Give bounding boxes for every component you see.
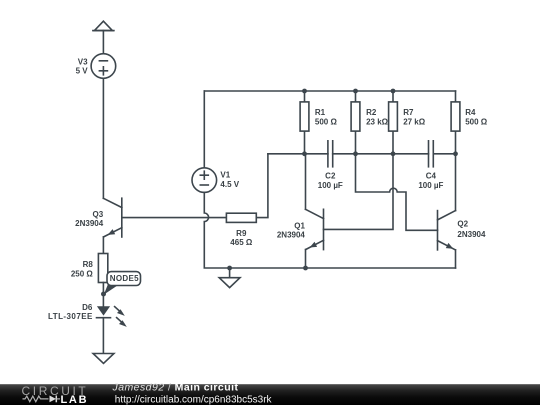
resistor R8 250 — [71, 254, 108, 283]
wire Q1 base to R7 column — [324, 154, 394, 230]
svg-text:Q1: Q1 — [294, 221, 305, 230]
wire top rail — [204, 90, 455, 92]
ground under bottom rail — [219, 268, 240, 288]
voltage source V3 — [76, 54, 116, 79]
junction ground stub dot — [227, 266, 232, 271]
svg-text:500 Ω: 500 Ω — [465, 117, 488, 126]
svg-text:R4: R4 — [465, 108, 476, 117]
svg-text:Jamesd92 / Main circuit: Jamesd92 / Main circuit — [112, 382, 239, 394]
wire Q2 collector to row2 — [455, 154, 457, 211]
node NODE5 flag — [104, 272, 141, 295]
power flag VCC arrow — [93, 21, 114, 30]
junction R7 top rail — [391, 89, 396, 94]
junction R2 top rail — [353, 89, 358, 94]
wire Q3 emitter to R8 — [102, 237, 104, 254]
wire Q1 collector to row2 — [305, 154, 307, 210]
wire D6 to ground — [102, 318, 104, 354]
junction Q1 emitter dot — [303, 266, 308, 271]
transistor Q2 2N3904 — [438, 211, 486, 250]
resistor R7 27k — [389, 91, 426, 154]
ground under D6 — [93, 354, 114, 364]
wire row2 middle segment — [333, 153, 429, 155]
wire Q1 emitter to bottom rail — [305, 250, 307, 269]
capacitor C4 100uF — [418, 141, 443, 190]
capacitor C2 100uF — [318, 141, 343, 190]
svg-text:Q2: Q2 — [457, 220, 468, 229]
transistor Q3 2N3904 — [75, 198, 122, 237]
svg-text:V1: V1 — [220, 171, 230, 180]
wire Q2 emitter to bottom rail — [455, 250, 457, 268]
junction R1 bottom / Q1 collector — [302, 151, 307, 156]
svg-text:465 Ω: 465 Ω — [230, 238, 253, 247]
svg-text:C2: C2 — [325, 171, 336, 180]
wire V1 to bottom rail with hop over base wire — [204, 192, 455, 268]
svg-text:250 Ω: 250 Ω — [71, 270, 94, 279]
svg-text:NODE5: NODE5 — [110, 274, 139, 283]
transistor Q1 2N3904 — [277, 209, 324, 249]
svg-text:LTL-307EE: LTL-307EE — [48, 312, 93, 321]
wire R2 jog to Q2 base with hop over R7 wire — [356, 154, 438, 231]
svg-text:Q3: Q3 — [93, 210, 104, 219]
wire R9 right to row2 — [256, 154, 268, 218]
junction R1 top rail — [302, 89, 307, 94]
svg-text:R7: R7 — [403, 108, 414, 117]
svg-text:500 Ω: 500 Ω — [315, 117, 338, 126]
svg-text:27 kΩ: 27 kΩ — [403, 117, 426, 126]
footer title text — [112, 382, 273, 405]
svg-text:R2: R2 — [366, 108, 377, 117]
svg-text:5 V: 5 V — [76, 67, 89, 76]
wire V3 top stem — [102, 31, 104, 54]
footer bar — [0, 384, 540, 405]
wire R8 to D6 — [102, 283, 104, 307]
svg-text:2N3904: 2N3904 — [457, 230, 486, 239]
resistor R9 465 — [226, 213, 256, 247]
wire Q3 base to R9 — [122, 217, 227, 219]
svg-text:D6: D6 — [82, 303, 93, 312]
svg-text:100 µF: 100 µF — [418, 181, 443, 190]
resistor R1 500 — [300, 91, 337, 154]
svg-text:2N3904: 2N3904 — [277, 230, 306, 239]
wire row2 left segment — [268, 153, 328, 155]
wire V3 to Q3 collector — [102, 78, 104, 198]
wire V1 to top rail — [203, 91, 205, 168]
svg-text:2N3904: 2N3904 — [75, 219, 104, 228]
svg-text:C4: C4 — [426, 171, 437, 180]
svg-text:R1: R1 — [315, 108, 326, 117]
junction R2 bottom — [353, 151, 358, 156]
resistor R4 500 — [451, 91, 488, 154]
logo CircuitLab — [22, 384, 89, 405]
wire row2 right segment — [433, 153, 455, 155]
svg-text:LAB: LAB — [61, 394, 89, 405]
junction R4 bottom / Q2 collector — [453, 151, 458, 156]
junction R7 bottom — [391, 151, 396, 156]
voltage source V1 — [192, 168, 240, 193]
svg-text:V3: V3 — [78, 57, 88, 66]
svg-text:R8: R8 — [83, 260, 94, 269]
resistor R2 23k — [351, 91, 389, 154]
svg-text:4.5 V: 4.5 V — [220, 180, 239, 189]
svg-text:R9: R9 — [236, 229, 247, 238]
junction NODE5 anchor dot — [101, 292, 106, 297]
LED D6 LTL-307EE — [48, 303, 127, 327]
svg-text:23 kΩ: 23 kΩ — [366, 117, 389, 126]
svg-text:http://circuitlab.com/cp6n83bc: http://circuitlab.com/cp6n83bc5s3rk — [115, 394, 273, 405]
svg-text:100 µF: 100 µF — [318, 181, 343, 190]
